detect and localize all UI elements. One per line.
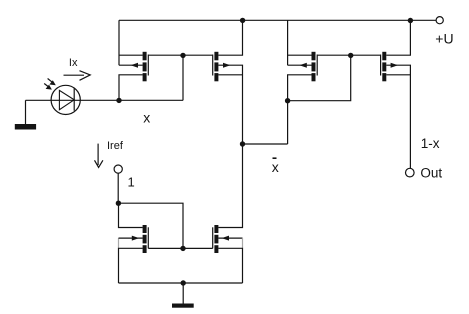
wire: M5 drain up to node 1	[119, 203, 143, 227]
wire: M5 bulk wire	[119, 237, 143, 239]
wire: M3 source/bulk feed from rail	[288, 20, 312, 65]
wire: M1 drain down to node x	[119, 75, 143, 101]
node: gate junction M5/M6	[180, 246, 185, 251]
svg-text:Iref: Iref	[107, 140, 124, 152]
wire: M6 source to bottom rail	[218, 248, 242, 283]
label xbar	[272, 157, 279, 175]
wire: +U supply rail	[119, 19, 436, 21]
svg-text:Out: Out	[420, 165, 442, 180]
wire: M4 source up to rail	[386, 20, 410, 55]
wire: M6 drain up to xbar	[218, 144, 242, 228]
wire: M1 source/bulk feed from rail	[119, 20, 143, 65]
svg-text:x: x	[272, 159, 279, 175]
nmos M6	[213, 225, 229, 253]
node: xbar junction	[240, 141, 245, 146]
node: ground rail junction	[181, 280, 186, 285]
wire: node x horizontal (through photodiode)	[26, 99, 184, 101]
svg-text:1-x: 1-x	[421, 136, 440, 151]
wire: bottom ground rail	[119, 282, 243, 284]
wire: M6 bulk wire	[218, 237, 242, 239]
pmos M1	[131, 52, 149, 81]
wire: gate junction down to node x	[182, 55, 184, 100]
node: gate junction M3/M4	[348, 53, 353, 58]
wire: M4 bulk and drain down to Out	[386, 65, 410, 168]
light arrow 2 into photodiode	[44, 84, 52, 90]
node: rail junction above M4	[408, 18, 413, 23]
wire: xbar jog to right pair column	[243, 143, 288, 145]
wire: photodiode to ground	[25, 100, 27, 124]
svg-text:1: 1	[128, 175, 135, 190]
wire: stub to ground	[182, 283, 184, 304]
node: junction on M3 drain column	[285, 98, 290, 103]
wire: xbar to gates of M3,M4	[288, 55, 351, 100]
current arrow Iref	[95, 144, 103, 168]
wire: M5 bulk tie (light)	[118, 238, 120, 248]
svg-text:Ix: Ix	[69, 57, 78, 69]
wire: gates of M1,M2	[148, 54, 212, 56]
svg-text:+U: +U	[435, 30, 453, 46]
wire: gates of M3,M4	[317, 54, 380, 56]
node: node x junction	[116, 98, 121, 103]
wire: M2 bulk and drain down to node xbar	[218, 65, 242, 144]
node: gate junction M1/M2	[180, 53, 185, 58]
wire: M2 source up to rail	[218, 20, 242, 55]
terminal: +U	[436, 17, 443, 24]
pmos M3	[299, 52, 317, 81]
photodiode D1	[51, 85, 80, 114]
ground GND1	[15, 124, 36, 130]
wire: M6 bulk tie (light)	[242, 238, 244, 248]
wire: terminal 1 down to junction	[117, 173, 119, 203]
node: junction node 1	[116, 201, 121, 206]
terminal: reference input 1	[114, 165, 122, 173]
wire: M5 source to bottom rail	[119, 248, 143, 283]
wire: M3 drain column	[288, 75, 312, 144]
terminal: Out	[406, 168, 415, 177]
light arrow 1 into photodiode	[48, 79, 56, 86]
pmos M4	[381, 52, 398, 81]
pmos M2	[213, 52, 231, 81]
svg-text:x: x	[143, 110, 150, 126]
ground GND2	[172, 304, 194, 308]
node: rail junction above M2	[240, 18, 245, 23]
wire: gates of M5,M6	[148, 247, 212, 249]
wire: node 1 over to bottom gate column	[118, 203, 183, 248]
nmos M5	[132, 225, 149, 253]
current arrow Ix	[64, 71, 91, 81]
